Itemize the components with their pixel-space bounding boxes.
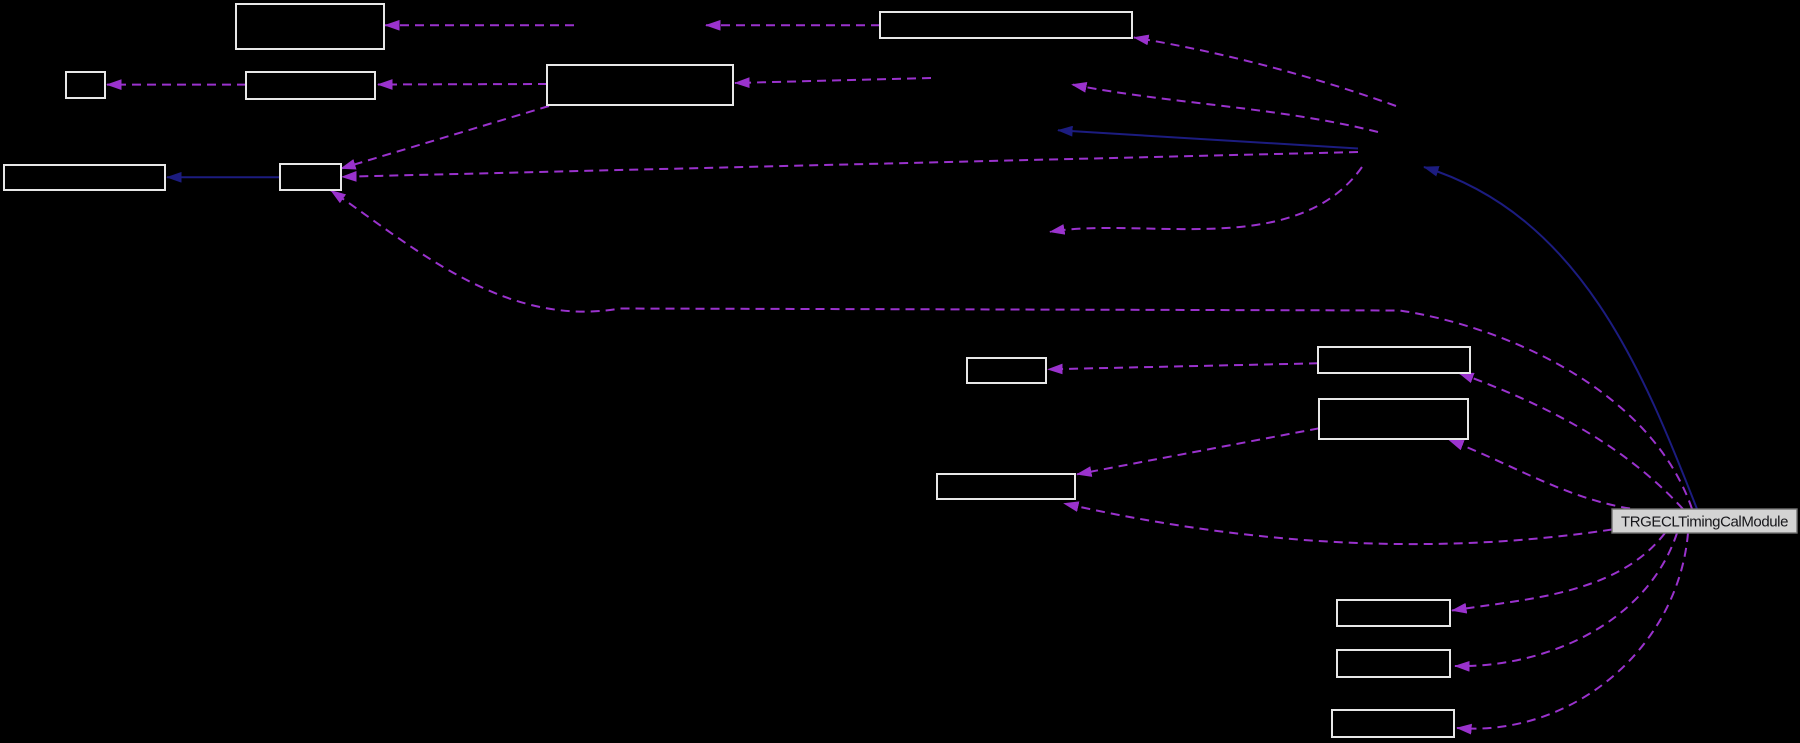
edge B9->B8 [1048,363,1318,369]
edge B5->B7 [341,106,549,169]
node B12 [1337,600,1450,626]
edge hub->B7 [342,152,1358,177]
edge M->B14 [1457,533,1688,729]
edge hub->C [1072,85,1378,133]
node B3 [66,72,105,98]
edge B5->B4 [378,83,547,86]
node B13 [1337,650,1450,677]
node TRGECLTimingCalModule [1612,509,1797,533]
edge M->B13 [1455,533,1677,666]
edge B7->B6 (inheritance) [167,176,280,178]
edge M->B9 [1459,373,1683,509]
edge B4->B3 [107,84,246,86]
edge M->B11 [1064,503,1612,544]
node B6 [4,165,165,190]
node B10 [1319,399,1468,439]
edge B2->D [706,24,880,26]
edge C->B5 [735,78,931,83]
edge M->B12 [1452,533,1665,611]
edge hub->F [1050,167,1362,232]
node B2 [880,12,1132,38]
edge B10->B11 [1077,428,1319,474]
node B7 [280,164,341,190]
edge M->B7 [331,191,1692,510]
svg-text:TRGECLTimingCalModule: TRGECLTimingCalModule [1621,514,1788,531]
edge D->B1 [385,24,574,26]
node B11 [937,474,1075,499]
node B4 [246,72,375,99]
node B1 [236,4,384,49]
edge M->B10 [1449,440,1630,509]
edge hub->B (inheritance) [1058,130,1358,148]
node B9 [1318,347,1470,373]
edge hub->B2 [1134,38,1396,107]
node B5 [547,65,733,105]
node B14 [1332,710,1454,737]
edge M->hub (inheritance) [1424,167,1697,509]
node B8 [967,358,1046,383]
